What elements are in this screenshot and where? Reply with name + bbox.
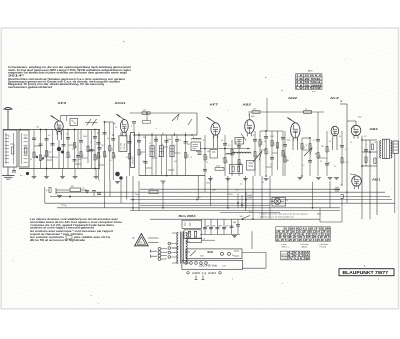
wire: PSU top rail (150, 218, 320, 220)
note: German text block top-left (8, 66, 132, 89)
grid bias blob ACH1 (115, 172, 123, 184)
IF transformer II between AF7 and AB2 (235, 134, 246, 145)
svg-text:anderes al sono lugar) ) messe: anderes al sono lugar) ) messen gemacht (30, 227, 94, 230)
svg-text:300: 300 (143, 137, 146, 139)
svg-text:2μF: 2μF (251, 116, 255, 118)
svg-text:5000: 5000 (216, 166, 220, 168)
svg-text:Les valeurs donnees sont valab: Les valeurs donnees sont valables*pour c… (30, 218, 119, 221)
svg-text:500Ω: 500Ω (247, 198, 252, 200)
svg-text:0,5: 0,5 (345, 149, 347, 151)
svg-text:250: 250 (150, 188, 153, 190)
blob under box L2 (20, 172, 29, 177)
tone box (272, 198, 286, 207)
svg-text:Wech s: Wech s (282, 247, 289, 249)
svg-text:respect au chassiseur * avec v: respect au chassiseur * avec voltmetre (30, 233, 84, 236)
power transformer (172, 232, 190, 264)
svg-text:500: 500 (36, 127, 39, 129)
svg-text:2000: 2000 (207, 156, 209, 160)
svg-text:les volume reunionis: les volume reunionis (30, 237, 65, 239)
svg-text:50: 50 (232, 255, 234, 257)
grounds row right (298, 178, 339, 180)
IF strip chains (137, 134, 189, 176)
svg-text:ms: ms (20, 175, 22, 177)
svg-text:0,5: 0,5 (97, 133, 99, 135)
wire: bus y196.5 (50, 196, 390, 198)
wire: bus y212.3 partial (220, 211, 280, 213)
switch on PSU rail (242, 216, 250, 221)
svg-text:0,1: 0,1 (228, 145, 230, 147)
rectifier box row (187, 238, 215, 242)
output transformer (380, 139, 392, 158)
svg-text:20: 20 (30, 159, 32, 161)
svg-text:Megerate 15 [mm] von der direk: Megerate 15 [mm] von der direkt abweichu… (8, 83, 105, 86)
ALZ cathode chain (340, 131, 346, 186)
note: text block bottom-left (30, 218, 123, 242)
svg-text:0,1: 0,1 (222, 158, 224, 160)
wire: top rail stage 1 (3, 129, 100, 131)
tube AB2 (245, 113, 255, 136)
svg-text:50: 50 (264, 141, 266, 143)
antenna (4, 108, 13, 131)
misc link stubs (10, 144, 327, 158)
wire: right section frame (340, 99, 347, 186)
tube AF3 (51, 115, 64, 168)
filter box (182, 220, 202, 228)
wire: bus y207.8 (57, 207, 340, 209)
tube AH2 (287, 118, 300, 151)
svg-text:20Ω: 20Ω (285, 200, 289, 202)
svg-text:verbunden gekundstartet: verbunden gekundstartet (8, 86, 52, 89)
svg-text:4μ: 4μ (114, 123, 116, 125)
mains prongs (151, 250, 158, 258)
svg-text:700: 700 (71, 186, 74, 188)
svg-text:0,2: 0,2 (110, 160, 112, 162)
svg-text:25: 25 (206, 162, 208, 164)
speaker field box (393, 141, 398, 153)
misc junction dots (20, 129, 363, 220)
svg-text:100: 100 (55, 157, 58, 159)
svg-text:100: 100 (286, 160, 289, 162)
svg-text:0,1: 0,1 (364, 136, 366, 138)
svg-text:0,1: 0,1 (106, 155, 108, 158)
svg-text:Tant: Tant (61, 204, 65, 207)
svg-text:70: 70 (190, 157, 192, 159)
wire: IF bottom rail (139, 175, 205, 177)
coil box L1 tuner (3, 130, 17, 167)
svg-text:pas relatie aux circu: pas relatie aux circu (74, 236, 111, 239)
svg-text:70: 70 (179, 140, 181, 142)
svg-text:5000: 5000 (270, 136, 274, 138)
svg-text:Tant: Tant (249, 211, 253, 214)
oscillator coil box above rail (70, 119, 78, 126)
svg-text:0,1: 0,1 (44, 155, 46, 157)
svg-text:50: 50 (161, 144, 163, 146)
wire: PSU mid rail (200, 234, 240, 236)
electrolytic caps right (230, 216, 243, 235)
svg-text:0,1: 0,1 (346, 162, 348, 164)
svg-text:0,1: 0,1 (302, 165, 304, 167)
svg-text:25: 25 (149, 143, 151, 145)
svg-text:Spannungen gemessen in Gerate: Spannungen gemessen in Gerate von C.a.v.… (8, 81, 121, 84)
table: voltage table bottom-right (276, 227, 331, 242)
driver box mid band (230, 165, 243, 174)
dial lamp (271, 198, 284, 204)
svg-text:a.m: a.m (312, 91, 316, 93)
ground PSU (232, 236, 237, 238)
svg-text:10: 10 (350, 142, 352, 144)
svg-text:50: 50 (254, 159, 256, 161)
svg-text:0,5: 0,5 (203, 140, 205, 142)
wire: bottom rail stage 1 (19, 168, 100, 170)
svg-text:megerater fur abweichun richte: megerater fur abweichun richten verteilt… (8, 72, 128, 75)
svg-text:50: 50 (339, 136, 341, 138)
svg-text:Bela: Bela (317, 214, 322, 216)
title box BLAUPUNKT 7W77 (339, 269, 394, 276)
svg-text:BLAUPUNKT 7W77: BLAUPUNKT 7W77 (343, 270, 389, 275)
svg-text:2014*: 2014* (8, 74, 24, 77)
caption text middle-right (260, 213, 323, 219)
svg-text:0,1: 0,1 (313, 140, 315, 142)
wire: bus y192 (56, 191, 385, 193)
IF rail tick stubs (139, 133, 186, 135)
svg-text:500: 500 (240, 216, 243, 218)
svg-text:70: 70 (374, 142, 376, 144)
svg-text:4: 4 (131, 126, 132, 128)
svg-text:In Geradeaus- empfang ist, die: In Geradeaus- empfang ist, die von der s… (8, 66, 132, 69)
svg-text:Rim 2084: Rim 2084 (179, 214, 196, 218)
svg-text:accordate aussi de les ATL bon: accordate aussi de les ATL bon ajuste-s … (30, 221, 123, 224)
svg-text:25: 25 (334, 166, 336, 168)
detector chains right of AB2 (259, 130, 287, 176)
svg-text:10: 10 (115, 127, 117, 129)
volume coil horizontal (226, 152, 251, 153)
diode coil cluster at IF output (191, 138, 202, 154)
svg-text:AL 25 5 125 2F 125 12F 12 4 12: AL 25 5 125 2F 125 12F 12 4 125 2F 125 (276, 239, 330, 242)
output stage wiring (361, 136, 377, 215)
svg-text:besf: besf (358, 117, 362, 119)
AF3 plate chains (62, 129, 102, 170)
svg-text:E: E (341, 99, 343, 103)
svg-text:50Ω: 50Ω (200, 256, 204, 258)
svg-text:10: 10 (305, 109, 307, 111)
tube AF7 (207, 117, 220, 148)
ACH1 chains (96, 121, 133, 180)
svg-text:20 5244F: 20 5244F (305, 87, 323, 90)
svg-text:25: 25 (235, 142, 237, 144)
svg-text:25: 25 (82, 188, 84, 190)
voltage selector box (182, 260, 243, 269)
svg-text:ab: ab (203, 239, 205, 241)
svg-text:comunes de 1,2 c%, quand l'app: comunes de 1,2 c%, quand l'appareil trod… (30, 224, 115, 227)
svg-text:25: 25 (94, 156, 96, 158)
RF ladder left (32, 129, 55, 170)
svg-text:50: 50 (126, 157, 128, 159)
svg-text:25: 25 (329, 141, 331, 143)
svg-text:NSW: NSW (208, 252, 214, 254)
svg-text:460 kHz II: 460 kHz II (132, 156, 134, 164)
svg-text:25: 25 (66, 134, 68, 136)
svg-text:20: 20 (83, 155, 85, 157)
svg-text:AF7: AF7 (210, 103, 219, 107)
svg-text:nach, Es hat ausf gemessen 4MV: nach, Es hat ausf gemessen 4MV Lampe f:1… (8, 69, 131, 72)
svg-text:460 KW: 460 KW (172, 149, 174, 155)
svg-text:500Ω: 500Ω (247, 195, 252, 197)
svg-text:0,1: 0,1 (158, 156, 160, 158)
wire: osc line to AF7 (130, 110, 198, 136)
svg-text:7V 0,3 A 2W: 7V 0,3 A 2W (288, 257, 310, 260)
svg-text:50: 50 (13, 145, 15, 147)
svg-text:220: 220 (143, 110, 146, 112)
svg-text:lg m: lg m (308, 71, 312, 73)
wire: AH2 top line (290, 111, 324, 113)
svg-text:0,1: 0,1 (276, 147, 278, 149)
NSW switch box (186, 249, 242, 259)
svg-text:al morse ca al stesswilasse: al morse ca al stesswilasse (260, 215, 295, 218)
svg-text:460 LW: 460 LW (152, 149, 154, 155)
svg-text:5000: 5000 (83, 136, 87, 138)
diode box under AB2 (247, 161, 256, 171)
svg-text:100: 100 (253, 109, 256, 111)
svg-text:AH2: AH2 (288, 96, 297, 100)
wire: bus y189 (140, 188, 340, 190)
ground under antenna (2, 167, 15, 179)
svg-text:0,1: 0,1 (236, 190, 239, 192)
svg-text:220 240 Volt: 220 240 Volt (199, 265, 217, 268)
svg-text:0,1: 0,1 (137, 141, 139, 143)
svg-text:300: 300 (287, 140, 290, 142)
svg-text:AB2: AB2 (243, 103, 252, 107)
svg-text:0,2: 0,2 (253, 135, 255, 137)
svg-text:2000: 2000 (187, 154, 189, 158)
svg-text:300: 300 (174, 161, 177, 163)
wire: right edge down (394, 153, 396, 213)
tube ALZ (331, 126, 339, 150)
svg-text:50: 50 (221, 140, 223, 142)
tube AB1 upper (347, 117, 362, 139)
svg-text:ACH1: ACH1 (115, 101, 126, 105)
svg-text:L W: L W (296, 87, 303, 90)
lamp area verticals (236, 190, 247, 208)
svg-text:5000: 5000 (206, 183, 210, 185)
rectifier resistor box (184, 230, 201, 239)
svg-text:dirns 50 al accessorie rightic: dirns 50 al accessorie righticale (30, 239, 86, 242)
AH2 chains (283, 112, 331, 176)
svg-text:500: 500 (78, 159, 81, 161)
partial mid rail y157 (43, 156, 56, 158)
svg-text:220 (•) 240: 220 (•) 240 (192, 272, 217, 275)
gang trimmer arrows (85, 119, 98, 126)
oscillator coil box under ACH1 (119, 136, 127, 152)
svg-text:70: 70 (100, 156, 102, 158)
svg-text:0,5: 0,5 (270, 164, 272, 166)
grounds row stage 1 (32, 169, 99, 179)
smoothing cap drops (203, 219, 229, 234)
svg-text:5000: 5000 (274, 142, 276, 146)
svg-text:300: 300 (320, 155, 322, 158)
voltage plate text below (187, 272, 221, 275)
wire: AF7 stage rail (200, 148, 250, 150)
wire: AF3-ACH1 coupling (61, 116, 101, 121)
svg-text:500: 500 (48, 153, 50, 156)
svg-text:70: 70 (305, 145, 307, 147)
wire: bus y203 (45, 202, 395, 204)
resistor on AH2 top line (304, 109, 312, 114)
misc value labels (8, 126, 376, 168)
svg-text:100: 100 (207, 151, 210, 153)
mains cord below selector (195, 276, 205, 280)
svg-text:0,1: 0,1 (240, 184, 243, 186)
svg-text:0,1: 0,1 (72, 149, 74, 151)
wire: IF top rail (133, 134, 197, 136)
svg-text:776: 776 (139, 242, 142, 244)
svg-text:Periodi: Periodi (320, 246, 327, 249)
IF transformer can 2 (159, 135, 163, 176)
svg-text:AF3: AF3 (58, 101, 67, 105)
tube ACH1 (114, 114, 129, 136)
svg-text:0,1: 0,1 (8, 136, 10, 138)
scan speckle noise (13, 41, 379, 305)
svg-text:AB1: AB1 (372, 178, 381, 182)
speaker terminal circles (158, 242, 178, 260)
svg-text:0,1: 0,1 (268, 152, 270, 155)
svg-text:6,3V 0,30A: 6,3V 0,30A (288, 255, 310, 258)
wire: bus y210.5 (130, 210, 340, 212)
svg-text:0,1: 0,1 (329, 150, 331, 153)
IF transformer can 3 (170, 135, 174, 176)
tube AB1 lower (350, 174, 361, 189)
svg-text:0,2: 0,2 (48, 135, 50, 137)
tone switch diagonal (304, 148, 312, 156)
cap and jack right mid (334, 187, 344, 222)
table: wave-range table top-right (296, 71, 323, 93)
svg-text:les tensions avec asterisque *: les tensions avec asterisque * sont mesu… (30, 230, 113, 233)
IF coil box left (131, 133, 135, 168)
vertical drops to buses (45, 176, 370, 219)
value labels along buses (135, 185, 344, 202)
AVC cluster bottom-left (46, 186, 101, 207)
osc line extras (132, 112, 192, 132)
svg-text:Tant: Tant (135, 193, 139, 196)
svg-text:Lant: Lant (197, 196, 201, 199)
ladder tail caps far left (12, 167, 16, 172)
speaker triangle (135, 234, 149, 246)
svg-text:0,1: 0,1 (70, 155, 72, 158)
caption under table (281, 243, 329, 248)
speaker wires (132, 238, 159, 243)
svg-text:1500: 1500 (167, 139, 171, 141)
IF transformer can 1 (150, 135, 154, 176)
svg-text:I tubele tensione alle prese d: I tubele tensione alle prese de la rete … (260, 213, 308, 216)
svg-text:50: 50 (107, 138, 109, 140)
box under AF7 (210, 150, 218, 159)
extra grounds mid band (206, 179, 268, 186)
wire: bus y205.5 (140, 205, 270, 207)
svg-text:220 kHz: 220 kHz (124, 143, 126, 150)
RC box on bus (149, 188, 158, 193)
horizontal resistor near AF7 bottom (215, 166, 224, 171)
ground IF strip (161, 181, 166, 183)
svg-text:0,2: 0,2 (155, 138, 157, 140)
wire: lamp feed y222 (320, 208, 342, 222)
svg-text:Gleichrichten stat wechsel-*ka: Gleichrichten stat wechsel-*kanalen geme… (8, 78, 126, 81)
wire: bus y199.5 (130, 199, 392, 201)
coil box L2 tuner (19, 130, 29, 167)
svg-text:0,1: 0,1 (46, 190, 49, 192)
svg-text:AB1: AB1 (370, 127, 379, 131)
svg-text:70: 70 (262, 182, 264, 184)
svg-text:ALZ: ALZ (330, 96, 339, 100)
svg-text:70: 70 (320, 161, 322, 163)
PSU right wires (242, 231, 266, 268)
svg-text:Osz 500: Osz 500 (121, 143, 123, 150)
svg-text:4,2V 0,65A: 4,2V 0,65A (288, 252, 310, 255)
table: small table bottom-right (281, 251, 311, 260)
svg-text:Abstg: Abstg (302, 246, 308, 249)
wire: AB2 top line (248, 98, 290, 131)
svg-text:8: 8 (193, 137, 194, 139)
svg-text:0,1: 0,1 (173, 145, 175, 147)
AF7/AB2 chains (203, 131, 262, 192)
svg-text:70: 70 (90, 142, 92, 144)
